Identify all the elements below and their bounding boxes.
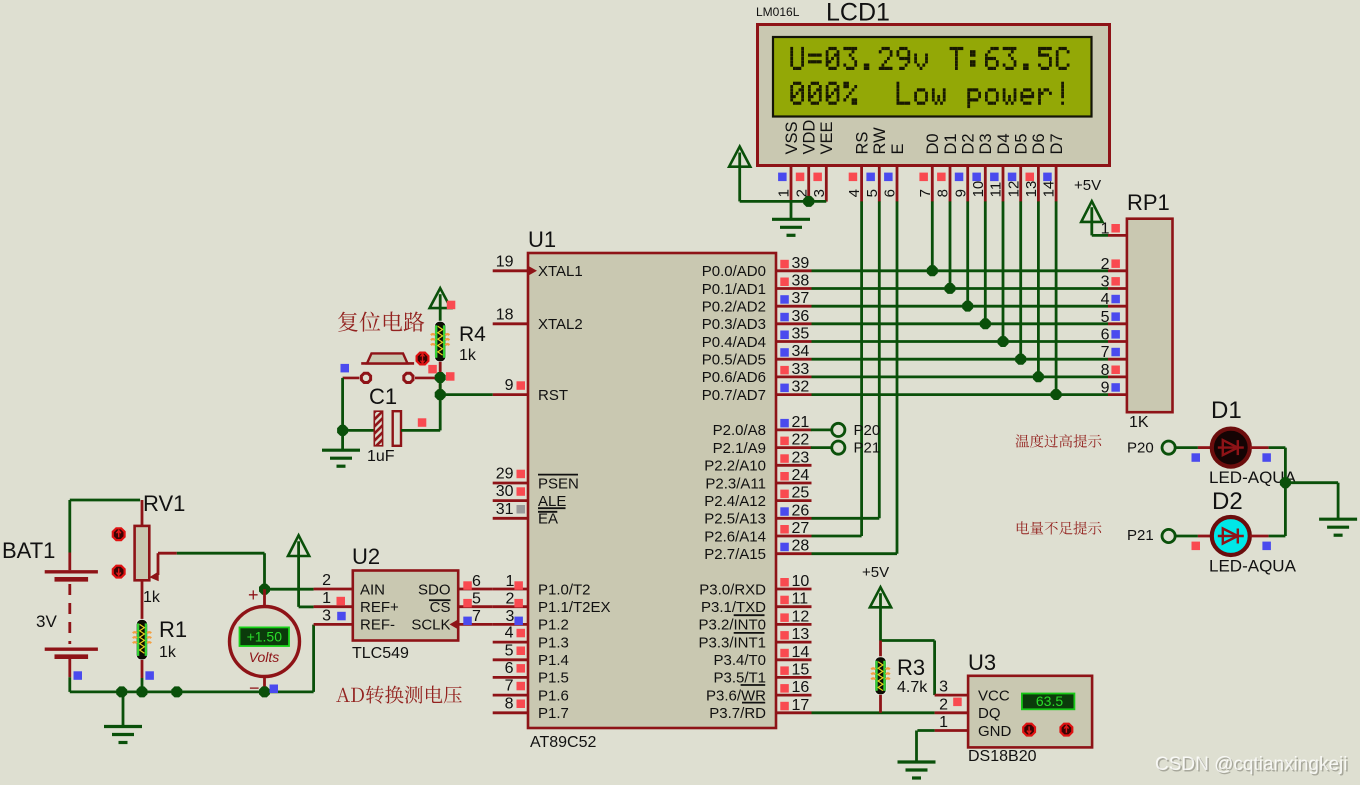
svg-text:D3: D3 xyxy=(977,133,995,154)
svg-text:Volts: Volts xyxy=(249,649,280,665)
RV1 wiper arrow xyxy=(149,553,177,581)
svg-text:REF-: REF- xyxy=(360,617,395,634)
svg-text:63.5: 63.5 xyxy=(1036,693,1063,709)
svg-text:29: 29 xyxy=(496,466,514,483)
svg-text:10: 10 xyxy=(792,573,810,590)
svg-text:P3.1/TXD: P3.1/TXD xyxy=(701,599,766,616)
svg-text:P0.6/AD6: P0.6/AD6 xyxy=(702,369,766,386)
U1 PSEN ALE EA bars xyxy=(538,475,578,512)
button logic square left xyxy=(341,364,350,373)
U1 right pin numbers and names xyxy=(698,255,809,722)
junction meter minus xyxy=(259,686,270,697)
U2 CS overline xyxy=(429,599,451,601)
U3 button down xyxy=(1022,723,1036,737)
svg-text:P2.1/A9: P2.1/A9 xyxy=(713,440,766,457)
svg-text:31: 31 xyxy=(496,501,514,518)
U3 button up xyxy=(1059,723,1073,737)
svg-text:7: 7 xyxy=(472,608,481,625)
U1 left pin stubs xyxy=(493,271,528,713)
RP1 power arrow xyxy=(1081,201,1108,235)
R3 bottom lead xyxy=(879,695,882,713)
wire battery top xyxy=(70,500,140,553)
svg-text:2: 2 xyxy=(506,591,515,608)
push button (reset) xyxy=(360,353,415,384)
svg-text:1K: 1K xyxy=(1129,414,1149,431)
svg-text:9: 9 xyxy=(505,377,514,394)
svg-text:23: 23 xyxy=(792,449,810,466)
LCD1 pin numbers 1-14 with logic state squares xyxy=(776,173,1058,198)
battery BAT1 xyxy=(45,553,98,678)
svg-text:VSS: VSS xyxy=(783,121,801,154)
svg-text:4: 4 xyxy=(1101,291,1110,308)
svg-text:P3.3/INT1: P3.3/INT1 xyxy=(698,634,766,651)
svg-text:D2: D2 xyxy=(960,133,978,154)
U1 INT0 INT1 WR RD overlines xyxy=(734,615,766,702)
svg-text:6: 6 xyxy=(472,573,481,590)
R3 top lead xyxy=(879,641,882,657)
svg-text:2: 2 xyxy=(939,696,948,713)
svg-text:1k: 1k xyxy=(143,589,161,606)
svg-text:P0.2/AD2: P0.2/AD2 xyxy=(702,299,766,316)
svg-text:P2.6/A14: P2.6/A14 xyxy=(704,528,766,545)
wire P21 to D2 xyxy=(1175,535,1211,538)
svg-text:3V: 3V xyxy=(36,612,57,631)
svg-text:27: 27 xyxy=(792,520,810,537)
svg-text:SDO: SDO xyxy=(418,581,451,598)
R1 logic square xyxy=(145,671,154,680)
ground battery rail xyxy=(104,692,142,743)
svg-text:14: 14 xyxy=(1041,181,1058,198)
svg-text:1: 1 xyxy=(506,573,515,590)
svg-text:P0.1/AD1: P0.1/AD1 xyxy=(702,281,766,298)
svg-text:DS18B20: DS18B20 xyxy=(968,748,1037,765)
svg-text:8: 8 xyxy=(935,189,952,197)
svg-text:−: − xyxy=(249,678,260,698)
U2 right pins SDO CS SCLK to U1 xyxy=(411,573,523,634)
button logic square right A xyxy=(428,365,437,374)
svg-text:6: 6 xyxy=(505,660,514,677)
svg-text:P20: P20 xyxy=(854,422,881,439)
svg-text:P21: P21 xyxy=(1127,527,1154,544)
capacitor C1 xyxy=(374,411,401,446)
svg-text:10: 10 xyxy=(970,181,987,198)
terminal P21 at D2 xyxy=(1127,527,1175,544)
svg-text:+5V: +5V xyxy=(1074,177,1101,194)
svg-text:D6: D6 xyxy=(1030,133,1048,154)
svg-text:4: 4 xyxy=(505,625,514,642)
svg-text:XTAL1: XTAL1 xyxy=(538,263,583,280)
svg-text:P2.3/A11: P2.3/A11 xyxy=(705,475,766,492)
caption reset circuit (Chinese) xyxy=(338,312,424,332)
U2 body TLC549 xyxy=(353,571,458,641)
svg-text:1: 1 xyxy=(939,714,948,731)
svg-text:R3: R3 xyxy=(897,655,925,680)
junction R1-rail xyxy=(137,686,148,697)
LCD1 pin name labels VSS VDD VEE RS RW E D0-D7 xyxy=(783,120,1066,155)
svg-text:P20: P20 xyxy=(1127,440,1154,457)
voltmeter xyxy=(230,589,300,692)
svg-text:9: 9 xyxy=(952,189,969,197)
svg-text:6: 6 xyxy=(1101,327,1110,344)
power +5V arrow at LCD xyxy=(729,147,750,202)
wire to LED ground xyxy=(1285,483,1338,520)
svg-text:CSDN @cqtianxingkeji: CSDN @cqtianxingkeji xyxy=(1155,754,1347,775)
svg-text:+5V: +5V xyxy=(862,564,889,581)
svg-text:D7: D7 xyxy=(1048,133,1066,154)
svg-text:13: 13 xyxy=(792,626,810,643)
wire D1 to ground net xyxy=(1269,448,1286,536)
wire button left down xyxy=(343,378,360,431)
svg-text:1: 1 xyxy=(322,590,331,607)
U2 SCLK clock arrow xyxy=(450,619,459,629)
svg-text:P1.1/T2EX: P1.1/T2EX xyxy=(538,599,611,616)
svg-text:4: 4 xyxy=(846,189,863,197)
svg-text:1: 1 xyxy=(1101,220,1110,237)
svg-text:SCLK: SCLK xyxy=(411,617,450,634)
svg-text:P3.0/RXD: P3.0/RXD xyxy=(699,581,766,598)
button actuator marker xyxy=(416,352,430,366)
svg-text:11: 11 xyxy=(792,591,809,608)
wire REF- vertical xyxy=(312,625,315,692)
svg-text:11: 11 xyxy=(988,182,1005,198)
svg-text:8: 8 xyxy=(505,695,514,712)
svg-text:12: 12 xyxy=(792,608,810,625)
svg-text:32: 32 xyxy=(792,379,810,396)
junction RST node xyxy=(435,389,446,400)
resistor R1 xyxy=(133,619,151,660)
svg-text:R4: R4 xyxy=(459,323,486,346)
wire P20 to D1 xyxy=(1175,446,1211,449)
D2 logic squares xyxy=(1192,542,1271,551)
svg-text:5: 5 xyxy=(505,642,514,659)
svg-text:28: 28 xyxy=(792,538,810,555)
BAT1 logic square xyxy=(74,671,83,680)
potentiometer RV1 body xyxy=(135,500,150,619)
svg-text:1k: 1k xyxy=(159,644,177,661)
svg-text:33: 33 xyxy=(792,361,810,378)
LCD1 pins 1-14 stubs xyxy=(791,166,1056,202)
svg-text:RS: RS xyxy=(853,132,871,155)
junction rail-ground xyxy=(116,686,127,697)
LED D2 (on) xyxy=(1212,517,1250,555)
bottom rail wire xyxy=(70,691,314,694)
svg-text:P1.0/T2: P1.0/T2 xyxy=(538,581,591,598)
wires LCD RS RW E D0-D7 vertical drops xyxy=(862,201,1057,553)
svg-text:1k: 1k xyxy=(459,347,477,364)
D1 right lead xyxy=(1250,446,1269,449)
svg-text:7: 7 xyxy=(505,678,514,695)
svg-text:P0.4/AD4: P0.4/AD4 xyxy=(702,334,766,351)
svg-text:12: 12 xyxy=(1005,181,1022,198)
svg-text:2: 2 xyxy=(1101,256,1110,273)
C1 logic square xyxy=(418,418,427,427)
svg-text:AIN: AIN xyxy=(360,581,385,598)
svg-text:P0.5/AD5: P0.5/AD5 xyxy=(702,352,766,369)
svg-text:AT89C52: AT89C52 xyxy=(530,734,597,751)
svg-text:RST: RST xyxy=(538,387,568,404)
svg-text:P1.3: P1.3 xyxy=(538,634,569,651)
svg-text:D5: D5 xyxy=(1013,133,1031,154)
svg-text:P2.5/A13: P2.5/A13 xyxy=(704,511,766,528)
RP1 body resistor pack xyxy=(1127,219,1173,413)
svg-text:TLC549: TLC549 xyxy=(352,645,409,662)
svg-text:D0: D0 xyxy=(924,133,942,154)
svg-text:9: 9 xyxy=(1101,380,1110,397)
U1 body AT89C52 xyxy=(528,253,776,728)
svg-text:15: 15 xyxy=(792,661,810,678)
svg-text:22: 22 xyxy=(792,432,810,449)
R3 power arrow xyxy=(870,587,891,640)
R4 arrow logic square xyxy=(447,301,456,310)
svg-text:26: 26 xyxy=(792,502,810,519)
svg-text:P1.5: P1.5 xyxy=(538,670,569,687)
svg-text:18: 18 xyxy=(496,306,514,323)
svg-text:DQ: DQ xyxy=(978,705,1001,722)
caption temperature high (Chinese) xyxy=(1016,434,1102,448)
svg-text:35: 35 xyxy=(792,326,810,343)
svg-text:25: 25 xyxy=(792,485,810,502)
svg-text:6: 6 xyxy=(882,189,899,197)
caption low battery (Chinese) xyxy=(1017,521,1102,534)
LCD1 body LM016L display module xyxy=(758,25,1110,166)
svg-text:P1.4: P1.4 xyxy=(538,652,569,669)
svg-text:XTAL2: XTAL2 xyxy=(538,316,583,333)
U1 right pin stubs xyxy=(776,271,812,713)
svg-text:36: 36 xyxy=(792,308,810,325)
svg-text:30: 30 xyxy=(496,483,514,500)
junction at LCD VDD pin xyxy=(803,196,814,207)
svg-text:U2: U2 xyxy=(352,544,380,569)
svg-text:P2.7/A15: P2.7/A15 xyxy=(704,546,766,563)
svg-text:E: E xyxy=(889,143,907,154)
junction R4-button xyxy=(435,372,446,383)
D2 right lead xyxy=(1250,535,1269,538)
LCD1 screen text line 1 xyxy=(790,47,1069,70)
svg-text:P1.6: P1.6 xyxy=(538,687,569,704)
svg-text:37: 37 xyxy=(792,290,810,307)
svg-text:VDD: VDD xyxy=(801,120,819,155)
svg-text:D1: D1 xyxy=(942,133,960,154)
svg-text:P3.4/T0: P3.4/T0 xyxy=(713,652,766,669)
svg-text:P1.7: P1.7 xyxy=(538,705,569,722)
svg-text:3: 3 xyxy=(1101,274,1110,291)
svg-text:D1: D1 xyxy=(1211,397,1242,424)
CSDN watermark xyxy=(1155,754,1349,777)
wire junction to C1 xyxy=(343,429,375,432)
caption AD conversion voltage (Chinese) xyxy=(336,686,462,704)
resistor R4 xyxy=(431,321,450,362)
R4 bottom lead xyxy=(439,362,442,395)
ground at LEDs xyxy=(1319,519,1357,535)
svg-text:21: 21 xyxy=(792,414,810,431)
C1 right wire xyxy=(401,395,440,431)
svg-text:CS: CS xyxy=(430,599,451,616)
junctions D0-D7 onto P0 bus rows xyxy=(927,265,1062,400)
wire LCD VSS VDD VEE to arrow xyxy=(740,200,827,203)
svg-text:5: 5 xyxy=(1101,309,1110,326)
meter minus logic square xyxy=(270,685,279,694)
ground at U3 xyxy=(898,731,936,779)
ground at C1 xyxy=(322,430,360,466)
svg-text:RV1: RV1 xyxy=(143,491,185,516)
LCD1 screen text line 2 xyxy=(790,82,1064,108)
svg-text:P1.2: P1.2 xyxy=(538,617,569,634)
U1 XTAL1 clock arrow xyxy=(528,266,537,276)
wires P0.0-P0.7 bus to RP1 xyxy=(812,271,1109,395)
wire button to RST node xyxy=(439,378,442,395)
svg-text:7: 7 xyxy=(1101,344,1110,361)
junction LED ground net xyxy=(1280,477,1291,488)
junction rail mid xyxy=(171,686,182,697)
wire battery to rail xyxy=(68,677,71,692)
svg-text:LED-AQUA: LED-AQUA xyxy=(1209,557,1297,576)
svg-text:P2.0/A8: P2.0/A8 xyxy=(713,422,766,439)
svg-text:REF+: REF+ xyxy=(360,599,399,616)
svg-text:3: 3 xyxy=(506,608,515,625)
svg-text:5: 5 xyxy=(864,189,881,197)
wire wiper to meter xyxy=(177,553,265,589)
svg-text:19: 19 xyxy=(496,253,514,270)
RV1 adjust marker down xyxy=(112,565,126,579)
wire R3 top to U3 VCC xyxy=(881,641,935,696)
LED D1 (off) xyxy=(1212,429,1250,467)
svg-text:U1: U1 xyxy=(528,227,556,252)
svg-text:LCD1: LCD1 xyxy=(826,0,890,27)
svg-text:LM016L: LM016L xyxy=(756,5,800,19)
RP1 pins 1-9 xyxy=(1101,220,1127,396)
svg-text:5: 5 xyxy=(472,591,481,608)
R4 power arrow xyxy=(430,288,451,321)
svg-text:7: 7 xyxy=(917,189,934,197)
resistor R3 xyxy=(871,657,890,695)
svg-text:P3.7/RD: P3.7/RD xyxy=(709,705,766,722)
svg-text:34: 34 xyxy=(792,343,810,360)
svg-text:1: 1 xyxy=(776,189,793,197)
svg-text:13: 13 xyxy=(1023,181,1040,198)
svg-text:39: 39 xyxy=(792,255,810,272)
button right wire xyxy=(415,377,440,380)
terminal P20 at D1 xyxy=(1127,440,1175,457)
svg-text:P2.4/A12: P2.4/A12 xyxy=(704,493,766,510)
U3 temperature display xyxy=(1022,693,1075,710)
svg-text:U3: U3 xyxy=(968,650,996,675)
junction square xyxy=(446,372,455,381)
wire RST node to U1 xyxy=(440,393,493,396)
svg-text:P3.2/INT0: P3.2/INT0 xyxy=(698,617,766,634)
R1 bottom lead xyxy=(141,660,144,678)
svg-text:1uF: 1uF xyxy=(367,448,395,465)
svg-text:D4: D4 xyxy=(995,133,1013,154)
svg-text:2: 2 xyxy=(322,572,331,589)
U3 pins VCC DQ GND xyxy=(935,679,1012,740)
U1 left pin numbers and names xyxy=(496,253,611,722)
wire D2 to ground net xyxy=(1269,535,1286,538)
U3 body DS18B20 xyxy=(968,676,1092,748)
svg-text:16: 16 xyxy=(792,679,810,696)
svg-text:3: 3 xyxy=(811,189,828,197)
svg-text:17: 17 xyxy=(792,697,810,714)
svg-text:R1: R1 xyxy=(159,617,187,642)
svg-text:+: + xyxy=(248,585,259,605)
ground under LCD pin1 xyxy=(772,201,810,235)
svg-text:GND: GND xyxy=(978,723,1012,740)
svg-text:D2: D2 xyxy=(1212,488,1243,515)
U3 GND wire xyxy=(917,729,934,732)
wires P2.5 P2.6 P2.7 to LCD control lines xyxy=(812,518,898,553)
svg-text:P0.3/AD3: P0.3/AD3 xyxy=(702,316,766,333)
svg-text:C1: C1 xyxy=(369,384,397,409)
junction C1 left xyxy=(337,425,348,436)
svg-text:VCC: VCC xyxy=(978,687,1010,704)
D1 logic squares xyxy=(1192,453,1271,462)
U2 power arrow xyxy=(288,535,314,607)
U2 left pins AIN REF+ REF- xyxy=(314,572,399,634)
svg-text:3: 3 xyxy=(939,679,948,696)
svg-text:EA: EA xyxy=(538,511,558,528)
terminal P21 at P2.1 xyxy=(811,440,880,457)
wire P3.7/RD to DS18B20 DQ xyxy=(812,711,935,714)
svg-text:3: 3 xyxy=(322,608,331,625)
svg-text:P0.7/AD7: P0.7/AD7 xyxy=(702,387,766,404)
svg-text:8: 8 xyxy=(1101,362,1110,379)
wire AIN xyxy=(265,588,314,591)
svg-text:BAT1: BAT1 xyxy=(2,538,55,563)
svg-text:38: 38 xyxy=(792,273,810,290)
svg-text:P2.2/A10: P2.2/A10 xyxy=(704,458,766,475)
svg-text:24: 24 xyxy=(792,467,810,484)
junction meter plus xyxy=(259,584,270,595)
terminal P20 at P2.0 xyxy=(811,422,880,439)
svg-text:VEE: VEE xyxy=(818,121,836,154)
svg-text:+1.50: +1.50 xyxy=(247,629,283,645)
svg-text:14: 14 xyxy=(792,644,810,661)
svg-text:4.7k: 4.7k xyxy=(897,679,928,696)
svg-text:P0.0/AD0: P0.0/AD0 xyxy=(702,263,766,280)
RV1 adjust marker up xyxy=(112,527,126,541)
svg-text:P21: P21 xyxy=(854,440,881,457)
svg-text:PSEN: PSEN xyxy=(538,475,579,492)
svg-text:RP1: RP1 xyxy=(1127,190,1170,215)
svg-text:RW: RW xyxy=(871,127,889,155)
R1 to rail xyxy=(141,678,144,692)
